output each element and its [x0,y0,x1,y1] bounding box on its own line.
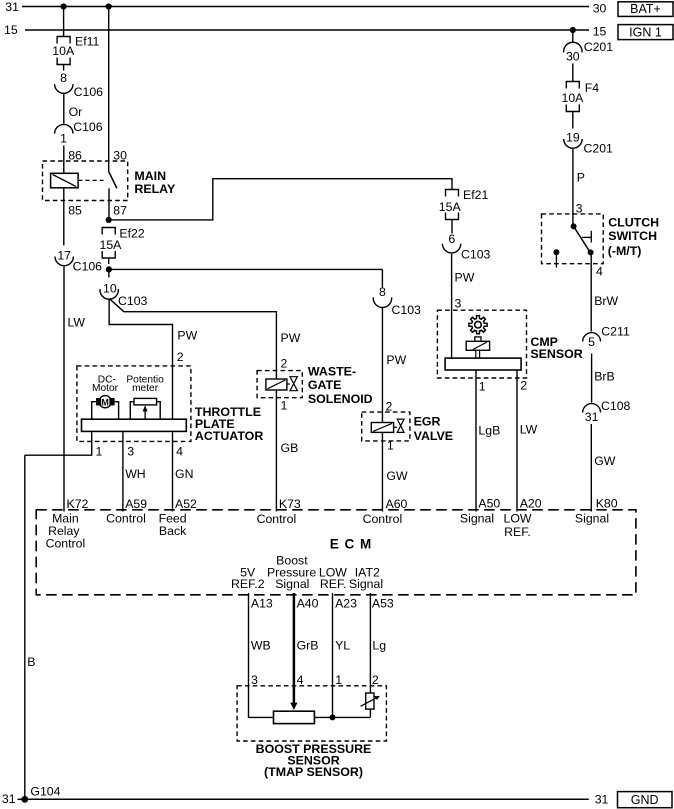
svg-text:15A: 15A [100,238,123,252]
wire CMP pin2 to ECM A20 [516,370,518,512]
potentiometer R1 body [134,398,157,405]
EGR solenoid coil L2 [371,423,393,433]
svg-text:BAT+: BAT+ [630,2,661,16]
svg-text:Control: Control [46,537,86,551]
fuse Ef21 [446,190,459,197]
junction below Ef22 [106,266,112,272]
CMP trigger gear [469,316,487,334]
wire through EGR coil [381,412,383,422]
waste-gate solenoid coil L1 [266,379,287,390]
IGN 1 terminal box [618,25,673,40]
svg-text:LOW: LOW [503,512,531,526]
svg-text:15: 15 [4,23,18,37]
svg-text:8: 8 [379,285,386,299]
BAT+ terminal box [618,2,673,17]
clutch switch common contact [571,223,577,229]
wire down to C103:8 [381,269,383,288]
svg-text:19: 19 [566,130,580,144]
svg-text:1: 1 [281,398,288,412]
pin 2 wire through actuator [172,366,174,419]
svg-text:15: 15 [593,24,607,38]
boost pressure sensor dashed box [237,686,386,741]
svg-text:C108: C108 [601,399,631,413]
connector C108 pin 31 half [583,404,601,413]
svg-text:C106: C106 [73,260,103,274]
svg-text:Control: Control [363,512,403,526]
waste-gate solenoid dashed box [257,371,302,398]
wire EGR to ECM A60 [381,441,383,512]
svg-text:Signal: Signal [575,512,609,526]
svg-text:VALVE: VALVE [414,429,453,443]
wire bus31 to fuse Ef11 [63,7,65,37]
wire 87-node to Ef21 (up and across) [109,179,452,220]
svg-text:3: 3 [455,297,462,311]
svg-text:2: 2 [372,673,379,687]
svg-text:PW: PW [455,271,475,285]
connector C201 pin 30 half [564,42,582,52]
potentiometer end leads [130,402,134,420]
svg-text:30: 30 [113,148,127,162]
svg-text:6: 6 [448,232,455,246]
clutch switch NC contact with stub [553,249,559,255]
svg-text:3: 3 [127,445,134,459]
svg-text:B: B [27,655,35,669]
main relay coil to contact dashed link [78,179,103,181]
wire relay contact 87 down [108,188,110,220]
svg-text:E C M: E C M [330,537,373,552]
svg-text:86: 86 [68,148,82,162]
wire clutch pin4 to C211:5 [590,252,592,331]
svg-text:Back: Back [159,524,187,538]
svg-text:87: 87 [113,203,127,217]
svg-text:Control: Control [257,512,297,526]
svg-text:4: 4 [596,265,603,279]
wire ECM A40 to TMAP wiper (bold) [293,593,296,703]
wire C103:6 to CMP sensor pin 3 [451,254,453,358]
svg-text:REF.2: REF.2 [231,577,265,591]
TMAP sense resistor R2 [274,711,315,723]
CMP sensor dashed box [437,310,526,378]
svg-text:1: 1 [479,380,486,394]
connector C201 pin 19 half [564,139,582,148]
svg-text:31: 31 [595,792,609,806]
wire bus31 to relay contact 30 [108,7,110,172]
svg-text:Ef11: Ef11 [75,34,100,48]
svg-text:K72: K72 [67,497,89,511]
svg-text:C201: C201 [584,40,614,54]
svg-text:CLUTCH: CLUTCH [608,215,659,229]
junction on bus 31 at main relay feed [106,3,112,9]
wire P C201:19 to clutch switch pin 3 [572,149,574,226]
svg-text:LgB: LgB [478,424,500,438]
svg-text:Lg: Lg [372,639,386,653]
svg-text:GW: GW [386,469,408,483]
junction below relay 87 [106,217,112,223]
actuator connector base bar [82,419,187,431]
wire ECM A13 to TMAP pin 3 [249,593,274,717]
connector C106 pin 8 half [55,84,73,93]
connector C106 pin 1 half [55,124,73,133]
wire actuator pin3 to ECM A59 [122,431,124,511]
fuse Ef22 [102,228,115,235]
svg-text:Signal: Signal [275,577,309,591]
wire through waste-gate coil [275,371,277,379]
svg-text:EGR: EGR [414,414,441,428]
svg-text:30: 30 [593,2,607,16]
svg-text:LW: LW [68,316,86,330]
svg-text:Ef22: Ef22 [119,227,144,241]
wire F4 to C201:19 [572,118,574,129]
svg-text:15A: 15A [439,200,462,214]
svg-text:Signal: Signal [349,577,383,591]
waste-gate coil to valve link [287,383,290,385]
wire CMP pin1 to ECM A50 [475,370,477,512]
fuse Ef11 [57,37,70,44]
svg-text:REF.: REF. [504,525,531,539]
dc motor leads [92,402,97,420]
svg-text:SOLENOID: SOLENOID [308,392,373,406]
ground rail stub left [18,798,25,800]
svg-text:WASTE-: WASTE- [308,365,356,379]
svg-text:A23: A23 [335,597,357,611]
svg-text:RELAY: RELAY [134,182,176,196]
clutch switch blade S1 [574,226,591,252]
wire Or C106:8 to C106:1 [63,94,65,123]
svg-text:1: 1 [60,132,67,146]
svg-text:A59: A59 [125,497,147,511]
svg-text:K73: K73 [279,497,301,511]
wire Ef22-node down to C103:10 [108,269,110,277]
svg-text:Motor: Motor [92,383,119,394]
svg-text:GATE: GATE [308,378,342,392]
svg-text:4: 4 [176,445,183,459]
ground junction G104 [21,796,28,803]
fuse F4 [566,82,579,89]
svg-text:C103: C103 [118,294,148,308]
wire thermistor to output node [369,709,371,717]
svg-text:31: 31 [2,792,16,806]
junction TMAP pin 1 [330,714,336,720]
wire ECM A23 to TMAP pin 1 [332,593,334,717]
svg-text:SWITCH: SWITCH [608,229,657,243]
wire waste-gate to ECM K73 [275,398,277,512]
svg-text:Ef21: Ef21 [463,188,488,202]
svg-text:BrB: BrB [594,369,615,383]
svg-text:1: 1 [335,673,342,687]
throttle plate actuator dashed box [77,366,191,442]
svg-text:WB: WB [251,639,271,653]
connector C103 pin 6 half [442,244,460,253]
svg-text:M: M [102,398,109,408]
GND terminal box [618,792,673,808]
wire Ef21 to C103:6 [451,226,453,234]
svg-text:Or: Or [69,105,83,119]
waste-gate valve symbol [290,377,297,391]
svg-text:PW: PW [386,353,406,367]
CMP sensor element [466,341,489,350]
svg-text:PW: PW [177,329,197,343]
svg-text:(-M/T): (-M/T) [608,244,642,258]
wire LW C106:17 down to ECM K72 [63,267,65,512]
svg-text:1: 1 [96,445,103,459]
svg-text:BrW: BrW [594,294,618,308]
svg-text:C106: C106 [73,120,103,134]
svg-text:2: 2 [520,379,527,393]
svg-text:LW: LW [520,423,538,437]
svg-text:(TMAP SENSOR): (TMAP SENSOR) [264,765,363,779]
svg-text:MAIN: MAIN [134,169,166,183]
svg-text:GrB: GrB [297,639,319,653]
svg-text:31: 31 [585,410,599,424]
svg-text:10: 10 [103,282,117,296]
svg-text:meter: meter [132,383,159,394]
svg-text:PW: PW [281,331,301,345]
junction on bus 15 feeding F4 [570,27,576,33]
wire C108:31 to ECM K80 [590,424,592,512]
svg-text:C103: C103 [392,303,422,317]
svg-text:A50: A50 [478,497,500,511]
main relay contact blade [109,172,117,189]
svg-text:8: 8 [60,71,67,85]
svg-text:31: 31 [5,0,19,14]
svg-text:Signal: Signal [460,512,494,526]
ground rail [25,798,589,800]
svg-text:C201: C201 [584,142,614,156]
svg-text:REF.: REF. [320,577,347,591]
wire BrB C211:5 to C108:31 [591,354,593,403]
svg-text:A52: A52 [175,497,197,511]
main relay coil [51,173,79,188]
wire C103:10 to waste-gate solenoid [110,299,277,371]
svg-text:17: 17 [57,249,71,263]
bus 15 (IGN) rail [25,29,589,31]
svg-text:Control: Control [106,512,146,526]
wire C201:30 to fuse F4 [572,64,574,82]
connector C103 pin 10 half [100,289,118,299]
EGR valve dashed box [362,412,410,441]
svg-text:IGN 1: IGN 1 [629,25,662,39]
svg-text:K80: K80 [596,496,618,510]
wire relay coil 85 down to C106:17 [63,188,65,246]
svg-text:10A: 10A [52,44,75,58]
potentiometer wiper arrow [144,408,146,419]
TMAP thermistor (IAT2) [366,693,374,709]
svg-text:A53: A53 [372,597,394,611]
CMP connector base bar [445,358,521,370]
wire actuator pin1 to ground branch [25,431,92,455]
connector C106 pin 17 half [55,257,73,266]
svg-text:2: 2 [281,357,288,371]
clutch switch NO contact [588,249,594,255]
svg-text:5: 5 [588,335,595,349]
svg-text:A60: A60 [386,497,408,511]
svg-text:A40: A40 [297,597,319,611]
wire C103:10 to throttle actuator pin 2 [109,299,172,366]
svg-text:30: 30 [566,50,580,64]
wire C106:1 to relay coil pin 86 [63,146,65,174]
CMP sensor stem [475,350,477,358]
TMAP output node wire [314,716,370,718]
EGR valve symbol [397,419,404,432]
svg-text:GN: GN [175,467,193,481]
svg-text:G104: G104 [30,785,60,799]
svg-text:GB: GB [281,441,299,455]
svg-text:C106: C106 [74,85,104,99]
main relay dashed box [43,161,128,201]
EGR coil to valve link [394,426,397,428]
svg-text:4: 4 [297,673,304,687]
svg-text:YL: YL [335,639,350,653]
junction on bus 31 at Ef11 feed [61,3,67,9]
svg-text:C103: C103 [461,248,491,262]
svg-text:F4: F4 [585,81,600,95]
dc motor brushes [97,399,101,405]
bus 31 (BAT+) rail [22,6,589,8]
svg-text:GND: GND [631,793,659,807]
svg-text:1: 1 [387,438,394,452]
wire B down to G104 [24,455,26,799]
svg-text:WH: WH [125,467,146,481]
svg-text:10A: 10A [562,91,585,105]
svg-text:ACTUATOR: ACTUATOR [195,429,263,443]
clutch switch dashed box [542,214,604,264]
ECM dashed box [36,510,636,595]
svg-text:A13: A13 [251,597,273,611]
svg-text:3: 3 [251,673,258,687]
connector C211 pin 5 half [583,333,601,342]
svg-text:2: 2 [177,350,184,364]
wire actuator pin4 to ECM A52 [172,431,174,511]
svg-text:A20: A20 [520,497,542,511]
svg-text:85: 85 [68,203,82,217]
svg-text:SENSOR: SENSOR [530,347,582,361]
CMP sensor neck [475,337,481,341]
dc motor M1 body [99,396,111,408]
connector C103 pin 8 half [373,297,391,307]
wire Ef22 to EGR branch across [109,268,383,270]
svg-text:GW: GW [594,454,616,468]
clutch switch plunger [582,236,591,238]
wire bus15 to C201:30 [572,30,574,43]
wire ECM A53 to TMAP pin 2 [369,593,371,693]
svg-text:P: P [577,171,585,185]
svg-text:C211: C211 [601,325,630,339]
wire C103:8 to EGR valve [381,307,383,412]
